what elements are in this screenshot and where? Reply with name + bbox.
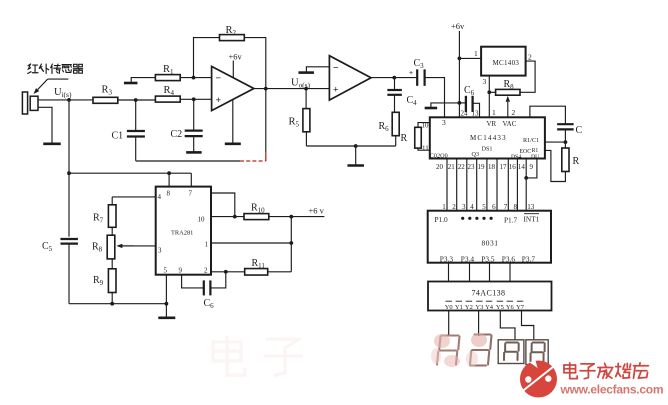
- node left column dot: [67, 171, 71, 175]
- node R10 left dot: [233, 215, 237, 219]
- resistor R right: [562, 148, 569, 172]
- resistor R3: [93, 97, 118, 103]
- svg-text:+6v: +6v: [451, 21, 465, 31]
- wire MC1403 pin3 down: [488, 76, 490, 118]
- red artifact on column: [265, 152, 267, 162]
- svg-text:+: +: [333, 84, 339, 95]
- node +6v/MC1403 dot: [458, 57, 462, 61]
- svg-text:Y0: Y0: [445, 304, 453, 311]
- wire sensor to node Ui: [38, 99, 93, 101]
- elecfans logo disc: [520, 361, 557, 398]
- wire pin1 row: [211, 242, 291, 244]
- node +6v/C6 dot: [458, 101, 462, 105]
- wire R11 to column: [268, 271, 292, 273]
- wire top rail to TBA281: [69, 172, 191, 174]
- IC MC1403: [481, 47, 525, 76]
- svg-text:1: 1: [205, 241, 209, 249]
- wire R3 to node: [118, 99, 156, 101]
- node R10 right dot: [289, 215, 293, 219]
- svg-text:+6 v: +6 v: [309, 206, 325, 216]
- wire Y0 down: [448, 311, 450, 335]
- svg-text:24: 24: [461, 110, 469, 118]
- svg-text:9: 9: [179, 267, 183, 275]
- svg-text:P3.5: P3.5: [481, 254, 495, 263]
- svg-text:2: 2: [512, 108, 516, 117]
- resistor R9: [111, 259, 113, 269]
- node output/C4 dot: [392, 76, 396, 80]
- resistor R10: [244, 214, 269, 220]
- ground under TBA281: [165, 304, 167, 318]
- svg-text:9: 9: [530, 163, 534, 171]
- svg-text:DS1: DS1: [482, 146, 493, 153]
- capacitor C right: [557, 123, 574, 125]
- wire R8 left stub: [489, 91, 495, 93]
- svg-text:P3.6: P3.6: [502, 254, 516, 263]
- wire pin8 drop: [168, 173, 170, 186]
- wire R9 bottom: [111, 293, 113, 304]
- svg-text:VAC: VAC: [503, 120, 517, 128]
- wire C3 to MC14433 pin3: [425, 78, 445, 118]
- svg-text:INT1: INT1: [524, 214, 540, 223]
- red artifact dashes on rail: [240, 160, 266, 162]
- svg-text:20: 20: [436, 163, 444, 171]
- display DS2 (watermarked): [470, 335, 492, 366]
- wire R bottom loop to R1 pin: [545, 150, 566, 181]
- wire node down to C1: [135, 100, 137, 131]
- wire R10 to +6v: [269, 216, 325, 218]
- bottom left rail: [69, 303, 166, 305]
- watermark text dianzifashaoyou: [564, 363, 577, 379]
- IC TBA281: [156, 187, 211, 275]
- bar ground at U2 minus: [298, 71, 314, 74]
- wire R1 to opamp U1 minus input: [180, 77, 211, 79]
- node minus/R2 dot: [192, 76, 196, 80]
- wire R4 to opamp U1 plus input: [180, 98, 211, 100]
- svg-text:74AC138: 74AC138: [472, 289, 506, 298]
- svg-text:14: 14: [518, 163, 526, 171]
- svg-text:18: 18: [488, 163, 496, 171]
- svg-text:−: −: [333, 62, 339, 73]
- svg-text:P3.3: P3.3: [440, 254, 454, 263]
- svg-text:2: 2: [528, 53, 532, 62]
- op-amp U2: [329, 56, 371, 100]
- svg-text:2: 2: [452, 203, 456, 211]
- node Ui dot: [67, 98, 71, 102]
- resistor R11: [245, 269, 268, 276]
- svg-text:8: 8: [167, 190, 171, 198]
- node R9 bottom dot: [110, 302, 114, 306]
- wire node up to R2: [194, 38, 220, 78]
- node pin1 col dot: [289, 241, 293, 245]
- svg-text:2: 2: [204, 267, 208, 275]
- top right rail to C: [530, 106, 566, 124]
- resistor R4: [155, 96, 180, 102]
- svg-text:MC14433: MC14433: [470, 134, 507, 142]
- svg-text:−: −: [216, 73, 222, 84]
- wire C to node: [564, 129, 566, 148]
- resistor R1: [155, 75, 180, 81]
- node R3/R4/C1 dot: [134, 98, 138, 102]
- svg-text:4: 4: [470, 203, 474, 211]
- right column: [290, 217, 292, 272]
- wire to MC1403 pin1: [459, 57, 481, 59]
- resistor R5: [305, 89, 307, 109]
- svg-text:P3.4: P3.4: [461, 254, 475, 263]
- display DS1 (watermarked): [437, 336, 460, 365]
- resistor R2: [220, 35, 245, 41]
- svg-text:22: 22: [458, 163, 466, 171]
- svg-text:P3.7: P3.7: [522, 254, 536, 263]
- svg-text:R: R: [401, 133, 408, 144]
- svg-text:TRA281: TRA281: [171, 230, 193, 237]
- node R1/C1 dot: [564, 140, 568, 144]
- capacitor C3: [416, 69, 418, 86]
- faint watermark glyphs bottom left: [213, 337, 301, 375]
- capacitor C2: [185, 130, 203, 132]
- pin wires MC14433 to 8031: [446, 159, 448, 211]
- wire pin2 row to R11: [211, 271, 245, 273]
- wire C6 right to pin13: [473, 103, 480, 117]
- svg-text:23: 23: [468, 163, 476, 171]
- svg-text:7: 7: [189, 190, 193, 198]
- wire rail to ground: [355, 146, 357, 165]
- wire pin10 row to R10: [211, 216, 244, 218]
- svg-text:C02Q0: C02Q0: [430, 152, 448, 159]
- dots P1.x: [461, 217, 464, 220]
- svg-text:R: R: [573, 156, 580, 167]
- svg-text:5: 5: [482, 203, 486, 211]
- IC 74AC138: [428, 282, 552, 311]
- wire node down to C2: [193, 99, 195, 130]
- svg-text:Y1: Y1: [455, 304, 463, 311]
- ground bar mid: [347, 164, 364, 167]
- svg-text:21: 21: [448, 163, 456, 171]
- svg-text:6: 6: [492, 203, 496, 211]
- svg-text:C1: C1: [112, 131, 124, 142]
- wire R2 right and down to output: [244, 38, 265, 89]
- wire +6v node to bar: [431, 103, 460, 107]
- svg-text:13: 13: [472, 110, 480, 118]
- svg-text:1: 1: [474, 49, 478, 58]
- sensor MIC body: [22, 92, 27, 114]
- ground bar under sensor: [43, 143, 61, 146]
- svg-text:VR: VR: [487, 120, 497, 128]
- svg-text:19: 19: [478, 163, 486, 171]
- IC 8031: [428, 211, 551, 263]
- wire U2 output: [371, 77, 417, 79]
- +6v column: [458, 31, 460, 117]
- resistor R7: [111, 197, 113, 205]
- display DS3: [498, 340, 524, 364]
- svg-text:Q3: Q3: [472, 151, 480, 158]
- wiper arrow R8 to pin3: [121, 245, 156, 247]
- svg-text:Y6: Y6: [506, 304, 515, 311]
- svg-text:13: 13: [527, 203, 535, 211]
- svg-text:17: 17: [500, 163, 508, 171]
- svg-text:4: 4: [158, 193, 162, 201]
- svg-text:C: C: [576, 125, 583, 136]
- svg-text:3: 3: [462, 203, 466, 211]
- wire output column down to rail: [265, 89, 267, 152]
- wire R1/C1 pin to node: [545, 141, 566, 143]
- bar ground near C6: [425, 107, 438, 110]
- ground bar left of R1: [124, 82, 138, 85]
- svg-text:3: 3: [158, 247, 162, 255]
- svg-text:Y7: Y7: [516, 304, 525, 311]
- svg-text:10: 10: [198, 216, 206, 224]
- wire pin7 drop: [190, 173, 192, 186]
- op-amp U1: [212, 66, 254, 110]
- svg-text:C2: C2: [171, 129, 183, 140]
- wire C2 to bar: [193, 136, 195, 152]
- wire C6 to pin2 row: [210, 272, 225, 288]
- wire C4 to R6: [394, 95, 396, 113]
- svg-text:DS4: DS4: [511, 155, 521, 161]
- svg-text:1: 1: [492, 108, 496, 117]
- display DS4: [526, 340, 548, 365]
- svg-text:7: 7: [504, 203, 508, 211]
- svg-text:R1: R1: [532, 148, 539, 154]
- node output/R2 dot: [264, 87, 268, 91]
- elbow top pin to R10 node: [211, 193, 235, 217]
- wire R1 left to bar ground: [131, 78, 155, 83]
- svg-text:5: 5: [164, 267, 168, 275]
- svg-text:MC1403: MC1403: [493, 59, 520, 67]
- ground bar under C2: [186, 151, 202, 154]
- wire R6 to rail: [395, 136, 397, 146]
- resistor R8 pot: [111, 227, 113, 235]
- svg-text:P1.7: P1.7: [504, 215, 518, 224]
- svg-text:+: +: [216, 95, 222, 106]
- svg-text:1: 1: [442, 203, 446, 211]
- wire Y3 down: [478, 311, 480, 336]
- wire +6v to U1: [232, 61, 234, 78]
- svg-text:3: 3: [483, 77, 487, 86]
- capacitor C4: [394, 78, 396, 90]
- capacitor C6 bottom: [203, 280, 205, 295]
- leader arrow to sensor: [48, 78, 69, 80]
- pin14 wire to INT1: [525, 159, 527, 211]
- IC MC14433: [430, 117, 545, 158]
- wire C1 to bottom rail: [135, 137, 137, 161]
- svg-text:+: +: [409, 70, 413, 77]
- wire Y7 elbow down: [522, 311, 534, 340]
- node C2 dot: [192, 97, 196, 101]
- label hongwai chuanganqi (infrared sensor): [28, 64, 38, 73]
- bottom rail C1/C2 to output column: [136, 160, 240, 162]
- wire U1 output row: [254, 88, 330, 90]
- node pin9/pin14 dot: [524, 176, 528, 180]
- svg-text:P1.0: P1.0: [435, 215, 449, 224]
- capacitor C6 top left plate: [459, 102, 466, 104]
- svg-text:3: 3: [442, 118, 446, 127]
- wire pin5 down: [165, 275, 167, 304]
- node pin8 dot: [167, 171, 171, 175]
- node pin3/R8 dot: [487, 90, 491, 94]
- resistor R6: [392, 112, 399, 135]
- wire U1 to ground: [232, 100, 234, 144]
- potentiometer R8: [496, 89, 520, 95]
- svg-text:DU: DU: [531, 155, 540, 161]
- svg-text:Y5: Y5: [496, 304, 504, 311]
- wire pin9 to C6: [182, 275, 204, 288]
- ground bar under U1: [225, 143, 241, 146]
- wire sensor to ground: [38, 107, 52, 143]
- node Uo dot: [304, 87, 308, 91]
- svg-text:8: 8: [514, 203, 518, 211]
- svg-text:+6v: +6v: [229, 52, 243, 62]
- capacitor C6 top right plate: [471, 96, 473, 112]
- left column from Ui node: [68, 100, 70, 237]
- wires 8031 to 74AC138: [448, 263, 450, 282]
- wire R5 to gnd rail: [305, 132, 307, 146]
- analog ground rail: [306, 145, 395, 147]
- svg-text:Y4: Y4: [485, 304, 494, 311]
- svg-text:Y2: Y2: [465, 304, 473, 311]
- node pin5 dot: [165, 302, 169, 306]
- node rail dot: [354, 144, 358, 148]
- svg-text:Y3: Y3: [475, 304, 483, 311]
- wire U2 minus to bar: [306, 67, 329, 72]
- svg-text:8031: 8031: [482, 239, 499, 248]
- left column below C5: [68, 244, 70, 304]
- svg-text:R1/C1: R1/C1: [523, 137, 539, 144]
- svg-text:11: 11: [422, 144, 429, 152]
- capacitor C1: [127, 130, 145, 132]
- svg-text:16: 16: [509, 163, 517, 171]
- pin9 elbow: [526, 159, 537, 178]
- node pin2 dot: [224, 270, 228, 274]
- wire MC1403 pin2 to R8 right: [520, 61, 535, 92]
- wire Y5 elbow down: [500, 311, 515, 340]
- svg-text:www.elecfans.com: www.elecfans.com: [560, 383, 664, 397]
- wiper arrow VAC: [507, 102, 509, 118]
- capacitor C5: [60, 238, 77, 240]
